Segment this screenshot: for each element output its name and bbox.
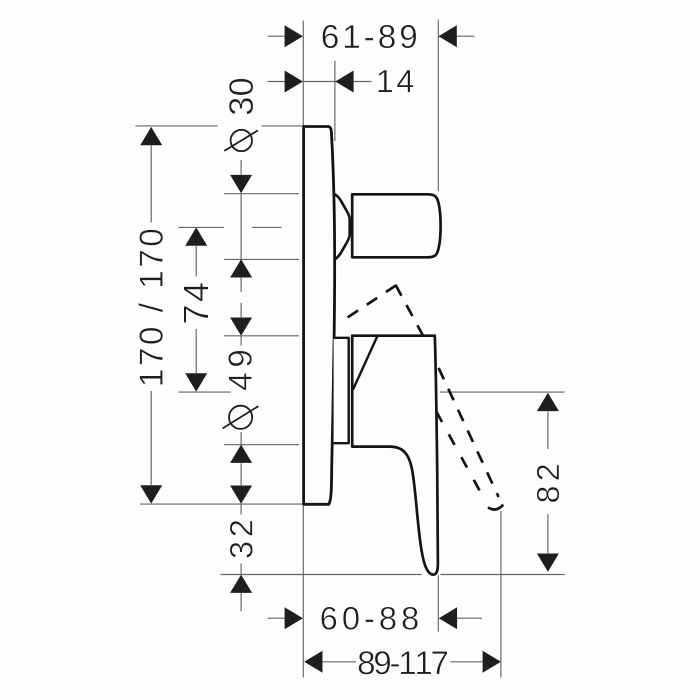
escutcheon plate (side profile) xyxy=(304,127,335,505)
arrow 82 bottom xyxy=(537,554,559,572)
wire vertical extension line V3 (handle face x=438) top xyxy=(437,20,439,192)
wire horizontal extension H6 right (82 top) xyxy=(440,391,565,393)
label 74 xyxy=(184,283,209,323)
label 49 xyxy=(228,351,252,390)
wire horizontal extension H6 lever pivot y=392 left xyxy=(179,391,231,393)
wire dimension 61-89 tails y=36 xyxy=(268,35,285,37)
arrow 89-117 right xyxy=(483,651,501,673)
arrow 61-89 right xyxy=(439,25,457,47)
wire horizontal extension H3 handle centre y=227 xyxy=(179,226,224,228)
wire dimension line 82 x=548 xyxy=(547,411,549,449)
wire vertical extension line V3 bottom xyxy=(437,575,439,632)
wire horizontal extension H2 handle top y=194 xyxy=(224,193,299,195)
arrow 14 right xyxy=(335,71,353,93)
arrow 74 bottom xyxy=(185,373,207,391)
arrow 32 top xyxy=(230,486,252,504)
label 61-89 xyxy=(322,25,416,49)
arrow 170/170 top xyxy=(140,127,162,145)
wire horizontal extension H5 body top y=336 xyxy=(224,335,299,337)
arrow 89-117 left xyxy=(304,651,322,673)
label 32 xyxy=(230,521,253,558)
lever mount flange xyxy=(334,338,349,443)
wire horizontal extension H4 handle bottom y=259 xyxy=(224,258,299,260)
wire dimension 60-88 tails y=618 xyxy=(268,617,285,619)
arrow dia30 top xyxy=(230,175,252,193)
wire dimension 14 y=81.5 xyxy=(268,81,285,83)
arrow 74 top xyxy=(185,227,207,245)
valve body with lever blade (solid position) xyxy=(352,336,438,575)
arrow 32 bottom xyxy=(230,575,252,593)
label 30 xyxy=(229,79,253,115)
body cone silhouette line xyxy=(353,336,377,390)
arrow 60-88 left xyxy=(285,607,303,629)
handle knob (cylinder, dia 30) xyxy=(352,194,440,257)
diameter symbol for 30 xyxy=(224,130,258,151)
wire vertical extension line V4 (dashed lever tip x=501) xyxy=(500,511,502,678)
wire vertical extension line V1 bottom xyxy=(302,505,304,678)
label 170/170 xyxy=(138,230,163,385)
wire horizontal extension H9 lever tip y=574 xyxy=(221,574,422,576)
arrow 14 left xyxy=(285,71,303,93)
arrow 60-88 right xyxy=(439,607,457,629)
arrow dia30 bottom xyxy=(230,259,252,277)
wire dimension 89-117 line y=662 xyxy=(323,661,356,663)
wire horizontal extension H7 body bottom y=445 xyxy=(224,444,299,446)
label 82 xyxy=(537,465,560,502)
dashed lever tip cap xyxy=(488,505,503,510)
dashed lever end edge upper xyxy=(396,285,424,336)
wire dimension line chain x=241 (dia30/dia49/32) xyxy=(240,160,242,175)
wire dimension line 170/170 x=151 xyxy=(150,145,152,222)
wire vertical extension line V2 (x=335, 14mm) xyxy=(334,61,336,142)
label 89-117 xyxy=(359,651,448,674)
arrow dia49 top xyxy=(230,318,252,336)
handle stem (trumpet) xyxy=(335,194,350,259)
wire vertical extension line V1 (wall plane x=303) top xyxy=(302,21,304,127)
arrow dia49 bottom xyxy=(230,445,252,463)
arrow 61-89 left xyxy=(285,25,303,47)
arrow 170/170 bottom xyxy=(140,485,162,503)
dashed lever inner edge xyxy=(436,412,481,494)
dashed lever outer edge xyxy=(439,368,499,497)
wire horizontal extension H1 plate top y=126 xyxy=(136,125,218,127)
wire horizontal extension H8 plate bottom y=504 xyxy=(140,503,302,505)
label 60-88 xyxy=(321,607,418,630)
wire dimension line 74 x=196 xyxy=(195,246,197,277)
diameter symbol for 49 xyxy=(223,406,259,429)
label 14 xyxy=(378,70,413,92)
arrow 82 top xyxy=(537,393,559,411)
dashed lever top edge (raised position) xyxy=(348,285,396,317)
